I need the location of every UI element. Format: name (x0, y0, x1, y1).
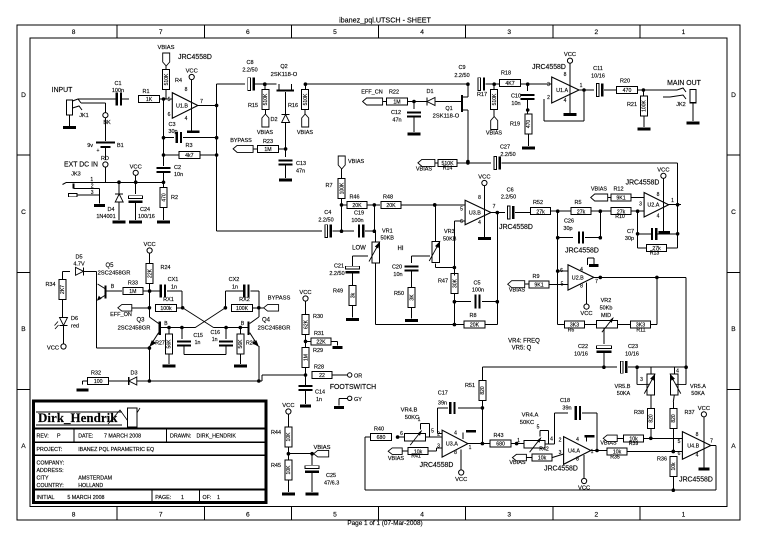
svg-text:R30: R30 (313, 314, 323, 320)
svg-text:C21: C21 (334, 264, 344, 270)
svg-text:A: A (731, 443, 736, 450)
svg-text:D4: D4 (107, 207, 114, 213)
svg-text:56K: 56K (167, 339, 173, 349)
svg-text:R29: R29 (313, 348, 323, 354)
svg-text:A: A (21, 443, 26, 450)
svg-text:R41: R41 (411, 454, 421, 460)
svg-text:R46: R46 (349, 195, 359, 201)
svg-text:Q5: Q5 (105, 263, 114, 269)
svg-text:VCC: VCC (299, 290, 311, 296)
svg-text:R40: R40 (374, 427, 384, 433)
svg-text:4: 4 (696, 453, 699, 459)
svg-text:VCC: VCC (455, 477, 467, 483)
svg-text:100n: 100n (351, 218, 363, 224)
svg-text:EFF_CN: EFF_CN (361, 90, 382, 96)
svg-text:20K: 20K (470, 323, 480, 329)
svg-text:R4: R4 (175, 78, 182, 84)
svg-text:8: 8 (576, 457, 579, 463)
svg-text:R38: R38 (634, 410, 644, 416)
svg-text:680: 680 (496, 442, 505, 448)
svg-text:8: 8 (696, 432, 699, 438)
svg-text:R50: R50 (394, 291, 404, 297)
svg-text:2SK118-O: 2SK118-O (271, 72, 298, 78)
svg-text:P: P (57, 434, 61, 440)
svg-text:R28: R28 (314, 365, 324, 371)
svg-text:Q3: Q3 (136, 318, 145, 324)
svg-text:510K: 510K (164, 73, 170, 85)
svg-text:JRC4558D: JRC4558D (420, 462, 454, 469)
svg-text:DIRK_HENDRIK: DIRK_HENDRIK (197, 434, 237, 440)
svg-text:7: 7 (493, 204, 496, 210)
svg-text:C16: C16 (211, 330, 221, 336)
svg-text:INPUT: INPUT (52, 87, 73, 94)
svg-text:10/16: 10/16 (574, 352, 588, 358)
svg-text:REV:: REV: (37, 434, 49, 440)
svg-text:C3: C3 (168, 122, 175, 128)
svg-text:PAGE:: PAGE: (155, 495, 171, 501)
svg-text:VCC: VCC (282, 403, 294, 409)
svg-text:1n: 1n (171, 285, 177, 291)
svg-text:6: 6 (560, 268, 563, 274)
svg-text:100: 100 (94, 379, 103, 385)
svg-text:4k7: 4k7 (185, 153, 193, 159)
svg-text:4: 4 (478, 220, 481, 226)
svg-text:1n: 1n (232, 285, 238, 291)
svg-text:Q1: Q1 (445, 106, 452, 112)
svg-text:6: 6 (246, 29, 250, 36)
svg-text:VBIAS: VBIAS (297, 130, 314, 136)
svg-text:2: 2 (91, 184, 94, 190)
svg-text:R26: R26 (246, 341, 256, 347)
svg-text:VCC: VCC (186, 69, 198, 75)
svg-text:U3.B: U3.B (469, 210, 481, 216)
svg-text:30p: 30p (625, 236, 634, 242)
svg-text:MAIN OUT: MAIN OUT (667, 80, 701, 87)
svg-text:JRC4558D: JRC4558D (679, 477, 713, 484)
svg-text:INITIAL: INITIAL (37, 495, 55, 501)
svg-text:JK1: JK1 (79, 113, 88, 119)
svg-text:R49: R49 (333, 289, 343, 295)
svg-text:C14: C14 (315, 390, 325, 396)
svg-text:OF:: OF: (203, 495, 212, 501)
svg-text:56K: 56K (238, 339, 244, 349)
svg-text:2.2/50: 2.2/50 (501, 195, 516, 201)
svg-text:5: 5 (678, 439, 681, 445)
svg-text:R21: R21 (627, 102, 637, 108)
svg-text:Q4: Q4 (262, 318, 271, 324)
svg-text:U2.A: U2.A (647, 203, 659, 209)
svg-text:1: 1 (217, 495, 220, 501)
svg-text:RX2: RX2 (239, 297, 250, 303)
svg-text:D2: D2 (270, 117, 277, 123)
svg-text:C24: C24 (140, 207, 150, 213)
svg-text:R17: R17 (477, 92, 487, 98)
svg-text:R48: R48 (383, 195, 393, 201)
svg-text:Q2: Q2 (280, 64, 287, 70)
svg-text:VCC: VCC (580, 311, 592, 317)
svg-text:820: 820 (671, 414, 677, 423)
svg-text:3: 3 (91, 190, 94, 196)
svg-text:1: 1 (682, 512, 686, 519)
svg-text:VR4: FREQ: VR4: FREQ (508, 339, 540, 345)
svg-text:10n: 10n (393, 272, 402, 278)
svg-text:20K: 20K (352, 203, 362, 209)
svg-text:7: 7 (159, 512, 163, 519)
svg-text:4: 4 (657, 214, 660, 220)
svg-text:C15: C15 (193, 333, 203, 339)
svg-text:9v: 9v (87, 143, 93, 149)
svg-text:10n: 10n (511, 101, 520, 107)
svg-text:100n: 100n (112, 88, 124, 94)
svg-text:7 MARCH 2008: 7 MARCH 2008 (104, 434, 141, 440)
svg-text:VCC: VCC (478, 175, 490, 181)
svg-text:JRC4558D: JRC4558D (532, 64, 566, 71)
svg-text:27k: 27k (536, 209, 545, 215)
svg-text:30p: 30p (168, 129, 177, 135)
svg-text:470: 470 (161, 193, 167, 202)
svg-text:50KA: 50KA (617, 391, 631, 397)
svg-text:47/6.3: 47/6.3 (324, 481, 339, 487)
svg-text:R52: R52 (533, 200, 543, 206)
svg-text:1: 1 (580, 83, 583, 89)
svg-text:C6: C6 (507, 188, 514, 194)
svg-text:5: 5 (168, 97, 171, 103)
svg-text:22: 22 (319, 373, 325, 379)
svg-text:R39: R39 (629, 441, 639, 447)
svg-text:R9: R9 (532, 274, 539, 280)
svg-text:3: 3 (639, 202, 642, 208)
svg-text:4: 4 (576, 437, 579, 443)
svg-text:BYPASS: BYPASS (230, 138, 252, 144)
svg-text:D: D (21, 92, 26, 99)
svg-text:C10: C10 (511, 94, 521, 100)
svg-text:COUNTRY:: COUNTRY: (37, 483, 64, 489)
svg-text:VR4.A: VR4.A (522, 413, 539, 419)
svg-text:GY: GY (354, 397, 362, 403)
svg-text:2SC2458GR: 2SC2458GR (258, 326, 291, 332)
svg-text:B: B (731, 326, 736, 333)
svg-text:2SC2458GR: 2SC2458GR (118, 326, 151, 332)
svg-text:1K: 1K (146, 97, 153, 103)
svg-text:R1: R1 (142, 89, 149, 95)
svg-text:red: red (71, 324, 79, 330)
svg-text:R27: R27 (155, 341, 165, 347)
svg-text:5: 5 (333, 512, 337, 519)
svg-text:100n: 100n (472, 288, 484, 294)
svg-text:8: 8 (478, 195, 481, 201)
svg-text:1: 1 (591, 449, 594, 455)
svg-text:3K: 3K (409, 294, 415, 301)
svg-text:50KB: 50KB (381, 236, 395, 242)
svg-text:C19: C19 (354, 211, 364, 217)
svg-text:D3: D3 (130, 371, 137, 377)
svg-text:R3: R3 (185, 143, 192, 149)
svg-text:3: 3 (640, 377, 643, 383)
svg-text:R10: R10 (615, 214, 625, 220)
svg-text:1M: 1M (393, 100, 400, 106)
svg-text:8: 8 (657, 192, 660, 198)
svg-text:6: 6 (400, 431, 403, 437)
svg-text:VR5: Q: VR5: Q (512, 346, 532, 352)
svg-text:2.2/50: 2.2/50 (329, 271, 344, 277)
svg-text:C7: C7 (627, 229, 634, 235)
svg-text:VR5.B: VR5.B (615, 384, 631, 390)
svg-text:2.2/50: 2.2/50 (318, 218, 333, 224)
svg-text:R20: R20 (620, 79, 630, 85)
svg-text:7: 7 (710, 439, 713, 445)
svg-text:VR2: VR2 (601, 298, 612, 304)
svg-text:2: 2 (594, 512, 598, 519)
svg-text:C20: C20 (392, 265, 402, 271)
svg-text:47n: 47n (296, 169, 305, 175)
svg-text:R42: R42 (539, 447, 549, 453)
svg-text:100/16: 100/16 (138, 214, 155, 220)
svg-text:8: 8 (454, 450, 457, 456)
svg-text:R43: R43 (493, 433, 503, 439)
svg-text:2: 2 (559, 438, 562, 444)
svg-text:R44: R44 (271, 430, 281, 436)
svg-text:2SK118-O: 2SK118-O (433, 114, 460, 120)
svg-text:4: 4 (420, 29, 424, 36)
svg-text:6: 6 (168, 112, 171, 118)
svg-text:1n: 1n (195, 340, 201, 346)
svg-text:VR4.B: VR4.B (401, 408, 418, 414)
svg-text:JRC4558D: JRC4558D (499, 224, 533, 231)
svg-text:820: 820 (649, 414, 655, 423)
svg-text:R36: R36 (657, 457, 667, 463)
svg-text:5: 5 (537, 425, 540, 431)
svg-text:510K: 510K (492, 93, 498, 105)
svg-text:9K1: 9K1 (616, 196, 625, 202)
svg-text:R19: R19 (510, 122, 520, 128)
svg-text:C1: C1 (114, 81, 121, 87)
svg-text:B1: B1 (117, 143, 124, 149)
svg-text:R14: R14 (443, 166, 453, 172)
svg-text:30p: 30p (563, 226, 572, 232)
svg-text:5 MARCH 2008: 5 MARCH 2008 (67, 495, 104, 501)
svg-text:R37: R37 (685, 410, 695, 416)
svg-text:VBIAS: VBIAS (388, 456, 405, 462)
svg-text:1: 1 (418, 417, 421, 423)
svg-text:IBANEZ PQL PARAMETRIC EQ: IBANEZ PQL PARAMETRIC EQ (78, 447, 154, 453)
svg-text:820: 820 (480, 386, 486, 395)
svg-text:+: + (97, 148, 100, 154)
svg-text:C5: C5 (473, 281, 480, 287)
svg-text:3k: 3k (350, 292, 356, 298)
svg-text:VCC: VCC (698, 406, 710, 412)
svg-text:8: 8 (72, 29, 76, 36)
svg-text:C23: C23 (628, 344, 638, 350)
svg-text:VBIAS: VBIAS (486, 131, 503, 137)
svg-text:6: 6 (460, 219, 463, 225)
svg-text:1: 1 (671, 198, 674, 204)
svg-text:510K: 510K (303, 93, 309, 105)
svg-text:C: C (21, 209, 26, 216)
svg-text:47n: 47n (392, 118, 401, 124)
svg-text:8: 8 (564, 72, 567, 78)
svg-text:10/16: 10/16 (591, 74, 605, 80)
svg-text:JRC4558D: JRC4558D (178, 54, 212, 61)
svg-text:3: 3 (507, 29, 511, 36)
svg-text:U1.A: U1.A (556, 88, 568, 94)
svg-text:10/16: 10/16 (625, 352, 639, 358)
svg-text:HI: HI (398, 246, 404, 252)
svg-text:VBIAS: VBIAS (509, 288, 526, 294)
svg-text:1M: 1M (303, 354, 309, 361)
svg-text:5: 5 (431, 429, 434, 435)
svg-text:C2: C2 (174, 165, 181, 171)
svg-text:R45: R45 (271, 463, 281, 469)
svg-text:680: 680 (377, 435, 386, 441)
svg-text:C22: C22 (578, 344, 588, 350)
svg-text:C26: C26 (564, 219, 574, 225)
svg-text:1M: 1M (264, 147, 271, 153)
svg-text:C12: C12 (391, 110, 401, 116)
svg-text:1: 1 (469, 445, 472, 451)
svg-text:50KB: 50KB (443, 237, 457, 243)
svg-text:30K: 30K (452, 278, 458, 288)
svg-text:50KA: 50KA (691, 391, 705, 397)
svg-text:1: 1 (517, 438, 520, 444)
svg-text:4: 4 (580, 267, 583, 273)
svg-text:U4.A: U4.A (568, 448, 580, 454)
svg-text:10K: 10K (286, 465, 292, 475)
svg-text:510K: 510K (263, 93, 269, 105)
svg-text:4: 4 (676, 369, 679, 375)
svg-text:50Kb: 50Kb (600, 306, 613, 312)
svg-text:C4: C4 (324, 210, 331, 216)
svg-text:9K1: 9K1 (534, 283, 543, 289)
svg-text:VBIAS: VBIAS (157, 45, 174, 51)
svg-text:10k: 10k (671, 462, 677, 471)
svg-text:1n: 1n (212, 337, 218, 343)
svg-text:4: 4 (564, 98, 567, 104)
svg-text:C25: C25 (326, 473, 336, 479)
svg-text:R7: R7 (325, 183, 332, 189)
svg-text:JRC4558D: JRC4558D (565, 248, 599, 255)
svg-text:D: D (731, 92, 736, 99)
svg-text:22K: 22K (147, 268, 153, 278)
svg-text:VBIAS: VBIAS (257, 130, 274, 136)
svg-text:10k: 10k (538, 456, 547, 462)
svg-text:JK2: JK2 (676, 102, 685, 108)
svg-text:1N4001: 1N4001 (96, 214, 115, 220)
svg-text:100K: 100K (236, 306, 249, 312)
svg-text:3: 3 (559, 450, 562, 456)
svg-text:2SC2458GR: 2SC2458GR (98, 271, 131, 277)
svg-text:BK: BK (103, 120, 111, 126)
svg-text:2.2/50: 2.2/50 (454, 73, 469, 79)
svg-text:DRAWN:: DRAWN: (170, 434, 191, 440)
svg-text:HOLLAND: HOLLAND (78, 483, 103, 489)
svg-text:6: 6 (246, 512, 250, 519)
svg-text:39n: 39n (438, 401, 447, 407)
svg-text:C9: C9 (458, 65, 465, 71)
svg-text:10K: 10K (286, 432, 292, 442)
svg-text:4K7: 4K7 (505, 81, 514, 87)
svg-text:VCC: VCC (47, 346, 59, 352)
svg-text:2.2/50: 2.2/50 (242, 68, 257, 74)
svg-text:7: 7 (595, 279, 598, 285)
svg-text:CX1: CX1 (168, 277, 179, 283)
svg-text:1: 1 (682, 29, 686, 36)
svg-text:62K: 62K (303, 319, 309, 329)
svg-text:D1: D1 (426, 89, 433, 95)
svg-text:VCC: VCC (578, 486, 590, 492)
svg-text:R22: R22 (389, 90, 399, 96)
svg-text:PROJECT:: PROJECT: (37, 447, 63, 453)
svg-text:1M: 1M (129, 289, 136, 295)
svg-text:4: 4 (420, 512, 424, 519)
svg-text:7: 7 (200, 99, 203, 105)
svg-text:VBIAS: VBIAS (416, 167, 433, 173)
svg-text:Page 1 of 1 (07-Mar-2008): Page 1 of 1 (07-Mar-2008) (347, 520, 422, 527)
svg-text:22K: 22K (316, 340, 326, 346)
svg-text:RX1: RX1 (163, 297, 174, 303)
svg-text:R47: R47 (438, 279, 448, 285)
svg-text:R31: R31 (314, 331, 324, 337)
svg-text:470: 470 (526, 120, 532, 129)
svg-text:CX2: CX2 (229, 277, 240, 283)
svg-text:EXT DC IN: EXT DC IN (64, 162, 98, 169)
svg-text:R35: R35 (610, 455, 620, 461)
svg-text:1n: 1n (316, 397, 322, 403)
svg-text:R2: R2 (171, 195, 178, 201)
svg-text:JK3: JK3 (71, 172, 80, 178)
svg-text:AMSTERDAM: AMSTERDAM (78, 476, 112, 482)
svg-text:JRC4558D: JRC4558D (626, 180, 660, 187)
svg-text:BYPASS: BYPASS (268, 295, 291, 301)
svg-text:39n: 39n (562, 406, 571, 412)
svg-text:C17: C17 (438, 391, 448, 397)
svg-text:COMPANY:: COMPANY: (37, 461, 65, 467)
svg-text:RD: RD (101, 156, 109, 162)
svg-text:C27: C27 (500, 145, 510, 151)
svg-text:R32: R32 (91, 371, 101, 377)
svg-text:VBIAS: VBIAS (313, 445, 330, 451)
svg-text:2: 2 (594, 29, 598, 36)
svg-text:2.2/50: 2.2/50 (500, 152, 515, 158)
svg-text:FOOTSWITCH: FOOTSWITCH (330, 384, 376, 391)
svg-text:2: 2 (547, 95, 550, 101)
svg-text:R18: R18 (501, 71, 511, 77)
svg-text:R15: R15 (248, 103, 258, 109)
svg-text:LOW: LOW (352, 246, 366, 252)
svg-text:ADDRESS:: ADDRESS: (37, 468, 64, 474)
svg-text:470: 470 (623, 88, 632, 94)
svg-text:B: B (21, 326, 26, 333)
svg-text:U4.B: U4.B (687, 443, 699, 449)
svg-text:6: 6 (678, 451, 681, 457)
svg-text:R51: R51 (465, 383, 475, 389)
svg-text:DATE:: DATE: (78, 434, 93, 440)
svg-text:R34: R34 (45, 282, 55, 288)
svg-text:10n: 10n (174, 172, 183, 178)
svg-text:3: 3 (437, 444, 440, 450)
svg-text:R5: R5 (574, 200, 581, 206)
svg-text:MID: MID (601, 313, 611, 319)
svg-text:D6: D6 (71, 316, 78, 322)
svg-text:R12: R12 (613, 187, 623, 193)
svg-text:OR: OR (354, 374, 362, 380)
svg-text:50KC: 50KC (520, 420, 535, 426)
svg-text:R8: R8 (469, 313, 476, 319)
svg-text:VCC: VCC (130, 164, 142, 170)
svg-text:R16: R16 (288, 103, 298, 109)
svg-text:7: 7 (159, 29, 163, 36)
svg-text:20K: 20K (386, 203, 396, 209)
svg-text:8: 8 (72, 512, 76, 519)
